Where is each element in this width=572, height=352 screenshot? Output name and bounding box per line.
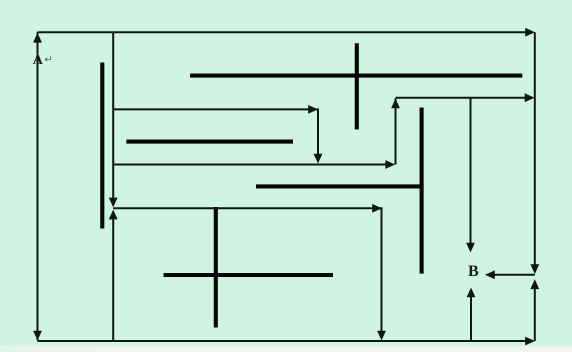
arrowhead right end of y97 line <box>525 93 535 102</box>
arrowhead up at top-left corner <box>33 33 42 43</box>
wall lower cross vertical <box>214 207 218 328</box>
wire B horizontal <box>492 274 535 276</box>
svg-text:B: B <box>468 263 479 280</box>
arrowhead right at bottom border end <box>525 337 535 346</box>
wire horizontal y106 <box>113 109 318 155</box>
wire inner vertical upper <box>112 32 114 200</box>
arrowhead right end of y163 line <box>385 160 395 169</box>
arrowhead down at bottom-left corner <box>33 331 42 341</box>
arrowhead right at top-right corner <box>525 28 535 37</box>
wire left border <box>37 32 39 340</box>
wall horizontal bar y185 <box>256 184 424 188</box>
wire vertical x471 up from bottom <box>470 296 472 341</box>
arrowhead up x395 top <box>391 98 400 108</box>
wire vertical x470 down to B <box>470 98 472 244</box>
arrowhead down x381 onto bottom border <box>377 331 386 341</box>
wall top cross horizontal <box>190 74 522 78</box>
arrowhead up x471 below B <box>467 288 476 298</box>
arrowhead down inner vertical onto y206 <box>109 198 118 208</box>
arrowhead up inner vertical below y206 <box>109 210 118 220</box>
arrowhead down right border onto B line <box>530 264 539 274</box>
svg-text:↵: ↵ <box>45 55 53 66</box>
arrowhead right end of y106 line <box>308 105 318 114</box>
wall vertical bar left <box>100 63 104 229</box>
wire bottom border <box>38 340 528 342</box>
arrowhead right end of y206 line <box>372 204 382 213</box>
wire vertical x395 up then right <box>395 98 397 164</box>
wire right border upper <box>534 32 536 266</box>
wire horizontal y163 <box>113 164 386 166</box>
svg-text:A: A <box>33 53 44 68</box>
wire inner vertical lower <box>112 218 114 342</box>
arrowhead down x470 above B <box>466 243 475 253</box>
arrowhead up right border below B line <box>530 279 539 289</box>
wall vertical bar x419 <box>420 108 424 274</box>
wall horizontal bar y141 <box>126 140 293 144</box>
wire top border <box>38 31 532 33</box>
arrowhead left pointing at B <box>485 270 495 279</box>
arrowhead down x318 onto y163 <box>314 154 323 164</box>
wire horizontal y206 <box>113 208 381 332</box>
wall lower cross horizontal <box>164 273 333 277</box>
wall top cross vertical <box>355 43 359 129</box>
wire right border lower <box>534 287 536 341</box>
